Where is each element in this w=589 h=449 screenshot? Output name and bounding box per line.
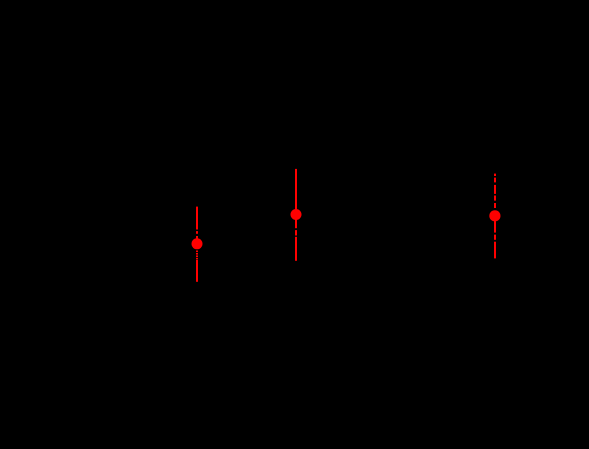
errorbar stem 1 marker dot — [192, 238, 203, 249]
errorbar stem 3 lower whisker — [494, 221, 496, 258]
errorbar stem 1 lower whisker (dotted section) — [196, 251, 198, 282]
errorbar stem 2 upper whisker — [295, 169, 297, 211]
errorbar stem 3 marker dot — [489, 210, 500, 221]
errorbar stem 2 lower whisker — [295, 219, 297, 261]
errorbar stem 3 upper whisker (dashed) — [494, 174, 496, 208]
errorbar stem 1 upper whisker — [196, 207, 198, 239]
errorbar stem 2 marker dot — [291, 209, 302, 220]
